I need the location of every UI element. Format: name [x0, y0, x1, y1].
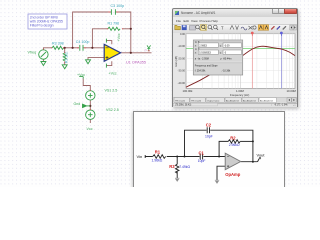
svg-text:Vcc: Vcc [87, 127, 93, 131]
svg-text:R3 398: R3 398 [52, 41, 64, 45]
svg-text:AC Amplit.Ch: AC Amplit.Ch [226, 99, 240, 102]
svg-text:Frequency and Slope: Frequency and Slope [195, 64, 218, 67]
svg-text:-40.00: -40.00 [178, 81, 186, 85]
svg-text:AC Amplit.Ch: AC Amplit.Ch [243, 99, 257, 102]
svg-text:7.49kΩ: 7.49kΩ [179, 165, 190, 169]
svg-text:1.96kΩ: 1.96kΩ [152, 159, 163, 163]
svg-text:▲: ▲ [195, 41, 197, 44]
svg-text:C3 100p: C3 100p [111, 4, 125, 8]
svg-text:y:: y: [220, 52, 222, 55]
svg-text:2.98E3: 2.98E3 [199, 44, 207, 47]
svg-text:Vin: Vin [137, 154, 143, 159]
svg-text:(76.59M, 38.43): (76.59M, 38.43) [175, 105, 191, 107]
svg-text:-9.171 -1.04k: -9.171 -1.04k [274, 105, 288, 107]
svg-text:∕ 10.36k: ∕ 10.36k [221, 69, 231, 72]
svg-text:+Vcc: +Vcc [109, 72, 117, 76]
svg-text:3: 3 [144, 49, 148, 51]
svg-text:R2: R2 [230, 136, 236, 141]
svg-text:10pF: 10pF [198, 159, 206, 163]
svg-text:10pF: 10pF [205, 134, 213, 138]
svg-text:x: -2.95M: x: -2.95M [199, 58, 209, 61]
svg-text:Gain (dB): Gain (dB) [174, 56, 178, 67]
svg-text:Vfreq: Vfreq [28, 51, 37, 55]
svg-text:VS1 2.5: VS1 2.5 [105, 88, 118, 92]
svg-text:VS2 2.5: VS2 2.5 [106, 108, 119, 112]
svg-text:TR result1: TR result1 [175, 99, 186, 102]
svg-text:C2: C2 [206, 123, 212, 128]
svg-text:U1 OPA355: U1 OPA355 [126, 60, 146, 64]
svg-text:TR result2: TR result2 [191, 99, 202, 102]
svg-text:y:: y: [220, 45, 222, 48]
svg-text:▲: ▲ [195, 48, 197, 51]
svg-text:-3.09: -3.09 [224, 44, 230, 47]
svg-text:R1 796: R1 796 [108, 21, 120, 25]
svg-text:-30.00: -30.00 [178, 69, 186, 73]
svg-text:-10.00: -10.00 [178, 44, 186, 48]
svg-text:C1: C1 [199, 151, 205, 156]
svg-text:FilterPro design: FilterPro design [30, 23, 54, 27]
svg-text:+Vcc: +Vcc [77, 73, 85, 77]
svg-text:Frequency (Hz): Frequency (Hz) [230, 93, 249, 97]
svg-text:Gnd: Gnd [74, 102, 81, 106]
svg-text:T: T [221, 26, 224, 31]
svg-text:x:: x: [195, 52, 197, 55]
svg-text:C4 100p: C4 100p [76, 40, 90, 44]
svg-text:OpAmp: OpAmp [225, 172, 241, 177]
svg-text:x:: x: [195, 45, 197, 48]
svg-text:2.96kΩ: 2.96kΩ [229, 143, 240, 147]
svg-text:+Vcc: +Vcc [117, 33, 121, 41]
svg-text:10.00M: 10.00M [287, 89, 297, 93]
svg-text:y: -80.44m: y: -80.44m [220, 58, 231, 61]
svg-text:5.93685E3: 5.93685E3 [199, 51, 211, 54]
svg-text:100.00k: 100.00k [183, 89, 194, 93]
svg-text:R1: R1 [155, 149, 161, 154]
svg-text:Output noise: Output noise [207, 99, 220, 102]
svg-text:-20.00: -20.00 [178, 56, 186, 60]
svg-text:f: 254.59k: f: 254.59k [195, 69, 206, 72]
svg-text:R2 102: R2 102 [64, 52, 68, 63]
svg-text:0.00: 0.00 [180, 32, 186, 36]
svg-text:AC Amplit.Ch: AC Amplit.Ch [260, 99, 274, 102]
svg-text:R3: R3 [169, 164, 175, 169]
svg-text:Vout: Vout [257, 153, 266, 158]
